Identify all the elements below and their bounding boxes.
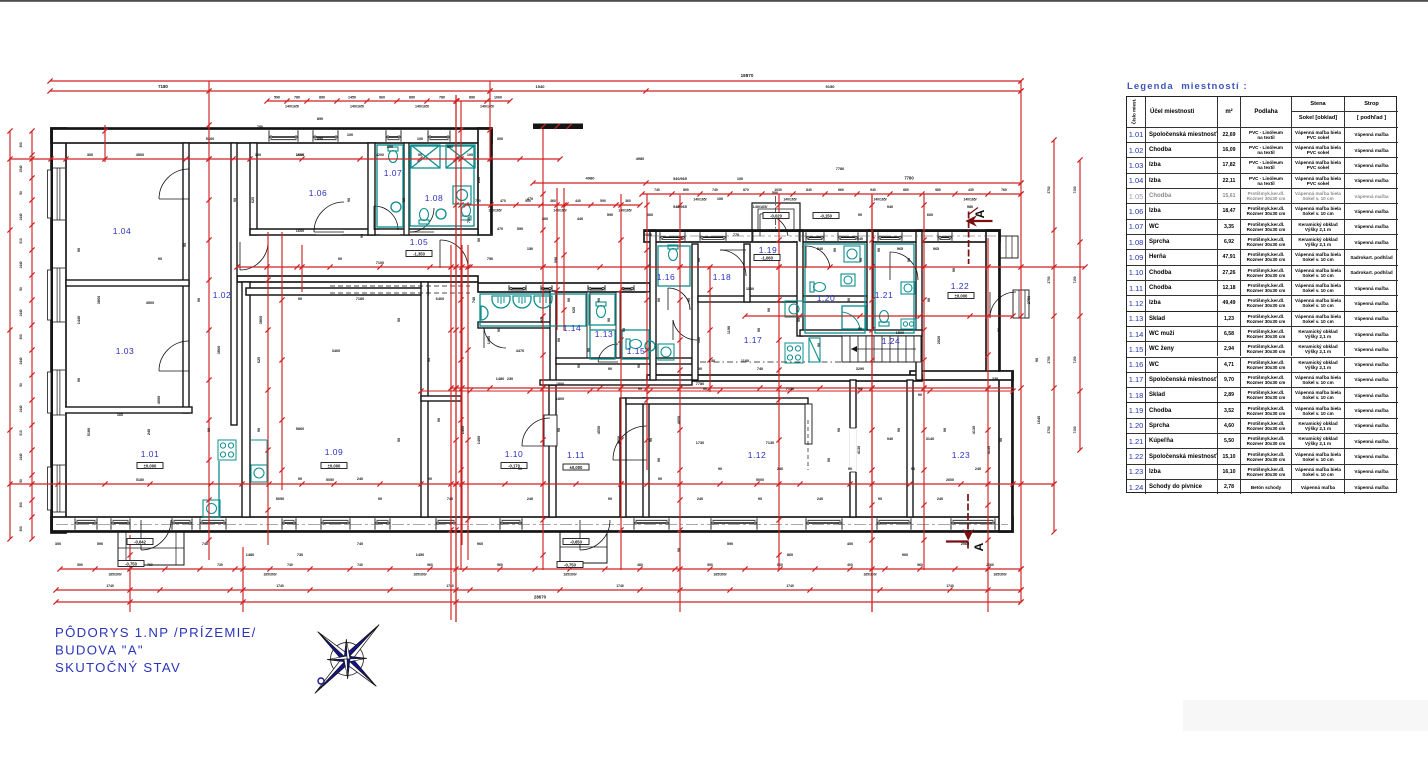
- svg-text:90: 90: [77, 378, 81, 382]
- svg-text:540: 540: [817, 247, 823, 251]
- svg-text:1500: 1500: [896, 331, 904, 335]
- svg-text:7150: 7150: [1073, 276, 1077, 283]
- steps east door: [1013, 290, 1029, 318]
- svg-text:240: 240: [147, 429, 151, 435]
- svg-text:1540: 1540: [19, 165, 23, 172]
- svg-text:140/165/: 140/165/: [618, 209, 631, 213]
- svg-text:480: 480: [637, 563, 643, 567]
- level box -0,150: [813, 213, 839, 219]
- svg-text:300: 300: [55, 542, 61, 546]
- svg-text:100: 100: [717, 197, 723, 201]
- faint paper mark bottom right: [1183, 700, 1428, 731]
- stove kitchen 1.01: [218, 440, 236, 460]
- sink 1.20: [841, 274, 855, 286]
- dimension line top overall: [50, 80, 1021, 82]
- svg-text:1450: 1450: [348, 96, 356, 100]
- svg-text:300: 300: [19, 502, 23, 508]
- svg-text:140/165/: 140/165/: [553, 209, 566, 213]
- svg-text:90: 90: [848, 467, 852, 471]
- svg-text:860: 860: [777, 563, 783, 567]
- svg-text:240: 240: [975, 467, 981, 471]
- door 1.14: [484, 328, 506, 348]
- svg-text:1.04: 1.04: [113, 226, 132, 236]
- svg-text:240: 240: [357, 477, 363, 481]
- legend table: [1126, 96, 1397, 493]
- svg-text:5180: 5180: [136, 478, 144, 482]
- tiling 1.15: [622, 330, 649, 359]
- dimension line right-top 7780: [533, 182, 1021, 184]
- svg-text:A: A: [972, 542, 986, 551]
- svg-text:-1,350: -1,350: [413, 251, 426, 256]
- svg-text:90: 90: [497, 328, 501, 332]
- svg-text:28670: 28670: [534, 595, 547, 600]
- section mark A bottom: [946, 494, 973, 549]
- toilet cubicle: [596, 302, 606, 318]
- svg-text:1740: 1740: [616, 584, 624, 588]
- svg-text:90: 90: [1035, 358, 1039, 362]
- svg-text:90: 90: [622, 328, 626, 332]
- svg-text:4130: 4130: [987, 446, 991, 454]
- wall 1.12 notch: [805, 404, 812, 444]
- svg-text:2750: 2750: [1047, 276, 1051, 283]
- svg-text:90: 90: [837, 428, 841, 432]
- svg-text:-0,750: -0,750: [125, 561, 138, 566]
- svg-text:±0,000: ±0,000: [570, 465, 583, 470]
- sink terrace wall: [481, 306, 488, 320]
- svg-text:±0,000: ±0,000: [955, 293, 968, 298]
- wall 1.06 bottom: [250, 229, 478, 235]
- wall 1.09/1.10: [421, 282, 428, 517]
- svg-text:7150: 7150: [1073, 186, 1077, 193]
- legend title: [1127, 81, 1248, 92]
- svg-text:90: 90: [477, 238, 481, 242]
- svg-text:-0,650: -0,650: [570, 539, 583, 544]
- svg-text:1740: 1740: [276, 584, 284, 588]
- dashed canopy edge: [330, 285, 470, 287]
- svg-text:1.21: 1.21: [875, 290, 894, 300]
- dimension line inner y316: [745, 315, 1013, 317]
- dimension line y484: [10, 483, 1054, 485]
- svg-text:140/165/: 140/165/: [488, 209, 501, 213]
- svg-text:90: 90: [718, 467, 722, 471]
- svg-text:240: 240: [937, 497, 943, 501]
- svg-text:90: 90: [897, 428, 901, 432]
- svg-text:1.11: 1.11: [567, 450, 585, 460]
- svg-text:5160: 5160: [206, 137, 214, 141]
- svg-text:1440: 1440: [19, 405, 23, 412]
- porch 1.11 steps: [560, 532, 607, 563]
- wall 1.19/1.20: [797, 230, 803, 336]
- svg-text:510: 510: [19, 430, 23, 436]
- svg-text:4550: 4550: [597, 426, 601, 434]
- svg-text:165/300/: 165/300/: [413, 573, 426, 577]
- door 1.08: [410, 208, 434, 232]
- wall stairs north: [800, 330, 922, 336]
- door 1.16: [668, 288, 690, 310]
- door 1.19 porch: [760, 214, 788, 236]
- sink 1.09: [251, 465, 267, 482]
- level box -1,060: [754, 255, 780, 261]
- svg-text:7150: 7150: [1073, 356, 1077, 363]
- svg-text:90: 90: [847, 298, 851, 302]
- door 1.21: [890, 252, 918, 280]
- sink 1.15: [645, 341, 655, 351]
- dashed 1.12 niche: [807, 420, 809, 470]
- svg-text:940: 940: [887, 205, 893, 209]
- axis line bottom wall: [56, 524, 1008, 526]
- wall 1.04/1.02: [183, 143, 189, 413]
- compass rose: [315, 625, 379, 694]
- svg-text:960: 960: [477, 542, 483, 546]
- svg-text:1.22: 1.22: [951, 281, 970, 291]
- svg-text:965: 965: [933, 247, 939, 251]
- svg-text:3140: 3140: [926, 437, 934, 441]
- svg-text:4550: 4550: [617, 436, 621, 444]
- svg-text:90: 90: [677, 548, 681, 552]
- svg-text:90: 90: [418, 153, 422, 157]
- svg-text:100: 100: [417, 137, 423, 141]
- svg-text:140/165/: 140/165/: [783, 198, 796, 202]
- wall 1.03/1.04 divider: [66, 280, 189, 286]
- axis line top-right wall: [648, 235, 996, 237]
- svg-text:90: 90: [878, 497, 882, 501]
- level box ±0,000: [137, 463, 163, 469]
- dimension cascade top-left: [267, 100, 510, 102]
- toilet 1.16: [668, 245, 678, 261]
- svg-text:400: 400: [847, 563, 853, 567]
- svg-text:300: 300: [19, 142, 23, 148]
- svg-text:90: 90: [827, 458, 831, 462]
- svg-text:740: 740: [202, 542, 208, 546]
- svg-text:590: 590: [554, 257, 558, 263]
- svg-text:360: 360: [550, 199, 556, 203]
- facade edge 1.08 right: [490, 129, 492, 234]
- svg-text:90: 90: [658, 477, 662, 481]
- svg-text:-1,060: -1,060: [761, 255, 774, 260]
- shower 1.20: [842, 306, 866, 329]
- svg-text:90: 90: [918, 393, 922, 397]
- svg-text:90: 90: [298, 477, 302, 481]
- svg-text:9150: 9150: [826, 84, 836, 89]
- svg-text:1.07: 1.07: [384, 168, 403, 178]
- washer 1.08: [453, 186, 471, 204]
- svg-text:1740: 1740: [106, 584, 114, 588]
- svg-text:7150: 7150: [1073, 426, 1077, 433]
- svg-text:2060: 2060: [961, 542, 969, 546]
- level box -0,650: [563, 539, 589, 545]
- level box -1,350: [406, 251, 432, 257]
- tiling 1.16: [658, 246, 690, 286]
- svg-text:780: 780: [294, 96, 300, 100]
- svg-text:2750: 2750: [1047, 186, 1051, 193]
- bottom dimension cascade 1: [60, 568, 1021, 570]
- svg-text:90: 90: [943, 428, 947, 432]
- dimension cascade mid (entrance): [466, 204, 640, 206]
- level box -0,170: [501, 463, 527, 469]
- svg-text:7130: 7130: [766, 441, 774, 445]
- svg-text:90: 90: [347, 198, 351, 202]
- svg-text:590: 590: [97, 542, 103, 546]
- svg-text:90: 90: [697, 258, 701, 262]
- svg-text:90: 90: [657, 298, 661, 302]
- counter 1.01: [218, 461, 220, 517]
- svg-text:1.02: 1.02: [213, 290, 232, 300]
- wall 1.14 south: [478, 322, 556, 328]
- svg-text:90: 90: [402, 198, 406, 202]
- svg-text:90: 90: [999, 438, 1003, 442]
- facade edge right lower: [1011, 372, 1013, 531]
- svg-text:860: 860: [787, 553, 793, 557]
- svg-text:540/965: 540/965: [673, 177, 687, 181]
- svg-text:940: 940: [887, 437, 893, 441]
- svg-text:1060: 1060: [494, 96, 502, 100]
- svg-text:5860: 5860: [296, 427, 304, 431]
- facade edge top-right: [645, 230, 1000, 232]
- svg-text:740: 740: [472, 297, 476, 303]
- svg-text:BUDOVA "A": BUDOVA "A": [55, 643, 144, 658]
- svg-text:90: 90: [687, 298, 691, 302]
- tiling 1.13: [590, 330, 615, 359]
- svg-text:140/165/: 140/165/: [963, 198, 976, 202]
- svg-text:980: 980: [935, 188, 941, 192]
- svg-text:360: 360: [647, 213, 653, 217]
- svg-text:-0,150: -0,150: [820, 213, 833, 218]
- wall 1.12 right: [850, 380, 856, 517]
- wall 1.21/1.22: [916, 230, 922, 380]
- exterior wall right upper: [986, 230, 1000, 377]
- svg-text:940: 940: [870, 188, 876, 192]
- svg-text:±0,000: ±0,000: [328, 463, 341, 468]
- svg-text:230: 230: [992, 377, 998, 381]
- section mark A top: [967, 208, 993, 265]
- svg-text:440: 440: [577, 217, 583, 221]
- svg-text:740: 740: [757, 367, 763, 371]
- wall 1.01/1.09: [242, 282, 250, 517]
- door east 1.22: [990, 292, 1016, 318]
- svg-text:1800: 1800: [556, 382, 564, 386]
- wall 1.16/1.18: [692, 244, 698, 380]
- svg-text:3860: 3860: [217, 346, 221, 354]
- svg-text:90: 90: [298, 297, 302, 301]
- svg-text:165/300/: 165/300/: [863, 573, 876, 577]
- svg-text:5180: 5180: [87, 428, 91, 436]
- level box -0,642: [127, 539, 153, 545]
- svg-text:960: 960: [917, 563, 923, 567]
- svg-text:160: 160: [117, 413, 123, 417]
- svg-text:90: 90: [19, 383, 23, 387]
- svg-text:770: 770: [733, 233, 739, 237]
- svg-text:90: 90: [19, 479, 23, 483]
- svg-text:90: 90: [927, 298, 931, 302]
- svg-text:1.20: 1.20: [817, 293, 836, 303]
- door 1.06: [314, 202, 344, 232]
- svg-text:1400: 1400: [477, 436, 481, 444]
- exterior wall bottom: [51, 517, 1013, 532]
- svg-text:1.17: 1.17: [744, 335, 763, 345]
- svg-text:1.05: 1.05: [410, 237, 429, 247]
- wall 1.11 right: [620, 398, 626, 517]
- svg-text:90: 90: [877, 248, 881, 252]
- svg-text:1.09: 1.09: [325, 447, 344, 457]
- svg-text:740: 740: [712, 188, 718, 192]
- wall stair strip right: [907, 380, 913, 517]
- porch 1.19 north walls: [752, 203, 800, 242]
- svg-text:165/300/: 165/300/: [563, 573, 576, 577]
- wall WC block bottom: [540, 380, 692, 385]
- wall 1.07/1.08: [404, 143, 409, 235]
- svg-text:660: 660: [838, 188, 844, 192]
- svg-text:165/300/: 165/300/: [993, 573, 1006, 577]
- exterior wall left: [51, 128, 66, 533]
- svg-text:90: 90: [817, 343, 821, 347]
- windows left wall: [52, 168, 65, 220]
- svg-text:890: 890: [469, 96, 475, 100]
- svg-text:1.12: 1.12: [748, 450, 767, 460]
- facade edge top-left: [52, 128, 491, 130]
- top border line: [0, 0, 1428, 2]
- svg-text:-0,642: -0,642: [134, 539, 147, 544]
- svg-text:360: 360: [625, 199, 631, 203]
- svg-text:890: 890: [409, 96, 415, 100]
- sink 1.08: [436, 209, 446, 219]
- svg-text:470: 470: [527, 197, 533, 201]
- svg-text:100: 100: [737, 177, 743, 181]
- door 1.13: [598, 344, 618, 362]
- facade edge left: [51, 129, 53, 532]
- door 1.15: [673, 320, 697, 340]
- svg-text:440: 440: [575, 199, 581, 203]
- svg-text:1.08: 1.08: [425, 193, 444, 203]
- svg-text:90: 90: [952, 268, 956, 272]
- door 1.20: [806, 246, 830, 268]
- door gap 1.12: [849, 428, 857, 472]
- wall 1.06 left: [250, 143, 257, 235]
- WC partition c: [647, 292, 650, 362]
- svg-text:1440: 1440: [19, 453, 23, 460]
- dimension line inner y159: [10, 158, 560, 160]
- svg-text:1640: 1640: [1037, 416, 1041, 424]
- door recess 1.10: [544, 415, 557, 446]
- svg-text:3290: 3290: [856, 367, 864, 371]
- svg-text:540: 540: [857, 237, 863, 241]
- svg-text:960: 960: [379, 96, 385, 100]
- corridor 1.05 bottom wall: [237, 276, 478, 282]
- svg-text:240: 240: [777, 467, 783, 471]
- svg-text:165/300/: 165/300/: [263, 573, 276, 577]
- wall 1.06/1.07: [368, 143, 375, 235]
- svg-text:840: 840: [806, 188, 812, 192]
- porch 1.01 steps: [118, 532, 184, 565]
- svg-text:300: 300: [497, 137, 503, 141]
- svg-text:960: 960: [427, 563, 433, 567]
- level box -0,750: [557, 562, 583, 568]
- toilet 1.20: [810, 282, 826, 292]
- door 1.03: [159, 341, 189, 371]
- svg-text:90: 90: [649, 438, 653, 442]
- svg-text:890: 890: [683, 188, 689, 192]
- svg-text:1480: 1480: [246, 553, 254, 557]
- svg-text:1440: 1440: [77, 316, 81, 324]
- svg-text:2600: 2600: [946, 478, 954, 482]
- door gap 1.06: [316, 230, 342, 234]
- wall WC south: [556, 358, 692, 364]
- level box -0,020: [763, 213, 789, 219]
- WC partition b: [616, 292, 620, 362]
- level box ±0,000: [321, 463, 347, 469]
- svg-text:1.01: 1.01: [141, 449, 160, 459]
- wall corridor 1.02 right: [231, 143, 237, 425]
- svg-text:300: 300: [87, 153, 93, 157]
- wall right block west: [650, 230, 656, 380]
- svg-text:18870: 18870: [741, 73, 754, 78]
- svg-text:90: 90: [557, 338, 561, 342]
- svg-text:240: 240: [697, 497, 703, 501]
- svg-text:90: 90: [518, 467, 522, 471]
- svg-text:90: 90: [257, 428, 261, 432]
- svg-text:230: 230: [507, 377, 513, 381]
- svg-text:SKUTOČNÝ STAV: SKUTOČNÝ STAV: [55, 660, 181, 675]
- svg-text:590: 590: [600, 199, 606, 203]
- svg-text:750: 750: [487, 257, 493, 261]
- svg-text:740: 740: [287, 563, 293, 567]
- bottom dimension cascade 2: [56, 589, 1021, 591]
- svg-text:90: 90: [77, 248, 81, 252]
- svg-text:90: 90: [608, 497, 612, 501]
- svg-text:400: 400: [847, 542, 853, 546]
- door 1.05/1.10: [440, 240, 468, 268]
- svg-text:2440: 2440: [19, 357, 23, 364]
- svg-text:90: 90: [911, 467, 915, 471]
- svg-text:740: 740: [447, 497, 453, 501]
- svg-text:3860: 3860: [259, 316, 263, 324]
- svg-text:5000: 5000: [756, 478, 764, 482]
- svg-text:965: 965: [897, 247, 903, 251]
- svg-text:90: 90: [233, 198, 237, 202]
- svg-text:1.14: 1.14: [563, 323, 582, 333]
- level box ±0,000: [948, 293, 974, 299]
- svg-text:90: 90: [767, 308, 771, 312]
- bottom dimension overall 28670: [56, 601, 1021, 603]
- svg-text:300: 300: [19, 526, 23, 532]
- svg-text:140/165/: 140/165/: [693, 198, 706, 202]
- toilet 1.15: [626, 339, 642, 349]
- svg-text:1480: 1480: [487, 336, 491, 344]
- stairs 1.24: [842, 336, 921, 362]
- tiling 1.08: [410, 146, 474, 226]
- svg-text:1.15: 1.15: [627, 346, 646, 356]
- level box ±0,000: [563, 464, 589, 470]
- sink 1.01 low: [203, 500, 220, 517]
- svg-text:590: 590: [77, 563, 83, 567]
- svg-text:165/300/: 165/300/: [108, 573, 121, 577]
- svg-text:90: 90: [19, 191, 23, 195]
- svg-text:90: 90: [158, 257, 162, 261]
- svg-text:3860: 3860: [97, 296, 101, 304]
- svg-text:625: 625: [251, 197, 255, 203]
- svg-text:90: 90: [427, 358, 431, 362]
- tiling WC cubicle: [589, 294, 615, 325]
- svg-text:2300: 2300: [644, 233, 652, 237]
- shower 1.08a X: [411, 145, 440, 168]
- svg-text:90: 90: [657, 458, 661, 462]
- svg-text:140: 140: [697, 337, 701, 343]
- right vertical dimension lines: [1053, 140, 1055, 532]
- dashed ceiling 1.17: [700, 361, 918, 363]
- svg-text:590: 590: [707, 563, 713, 567]
- svg-text:100: 100: [255, 153, 261, 157]
- svg-text:5050: 5050: [326, 478, 334, 482]
- svg-text:5050: 5050: [276, 497, 284, 501]
